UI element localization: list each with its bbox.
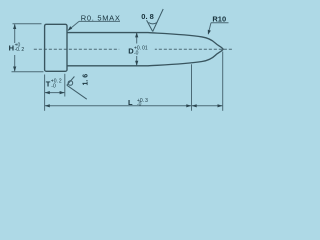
- svg-text:R0. 5MAX: R0. 5MAX: [81, 14, 121, 23]
- svg-text:-0: -0: [137, 102, 142, 108]
- leader R10: [211, 22, 229, 24]
- leader R0.5MAX: [79, 20, 120, 22]
- svg-text:R10: R10: [212, 15, 226, 24]
- tip chain arrow right: [218, 104, 223, 107]
- H dimension arrow up: [13, 24, 16, 29]
- centerline: [34, 48, 233, 50]
- L extension line at tip end: [222, 52, 224, 111]
- T extension line left: [44, 75, 46, 111]
- surface finish symbol 1.6 (rotated, on head right face): [67, 77, 87, 100]
- svg-text:0. 8: 0. 8: [141, 12, 154, 21]
- T arrow left: [45, 91, 50, 94]
- pin shank and tip outline: [67, 33, 223, 66]
- svg-text:H: H: [9, 43, 14, 52]
- D dimension line upper: [136, 33, 138, 44]
- surface finish symbol 0.8 (on shank top): [147, 9, 164, 32]
- svg-text:1. 6: 1. 6: [83, 74, 90, 86]
- svg-text:L: L: [128, 98, 133, 107]
- D dimension line lower: [136, 56, 138, 65]
- T dimension line: [45, 92, 65, 94]
- H dimension extension line bottom: [12, 71, 44, 73]
- svg-text:-0: -0: [51, 83, 56, 89]
- D label background mask: [119, 45, 155, 56]
- T extension line right (head right face extended): [64, 74, 66, 97]
- L dimension line: [45, 105, 223, 107]
- pin head: [45, 24, 67, 71]
- H dimension line: [14, 24, 16, 43]
- tip chain arrow left: [192, 104, 197, 107]
- H dimension arrow down: [13, 67, 16, 72]
- svg-text:-0. 2: -0. 2: [15, 47, 25, 53]
- svg-text:-0: -0: [134, 51, 139, 57]
- T arrow right: [60, 91, 65, 94]
- H dimension extension line top: [13, 23, 42, 25]
- D arrow up: [135, 32, 138, 37]
- D arrow down: [135, 61, 138, 66]
- L extension line at tip tangent: [191, 64, 193, 111]
- L arrow left: [45, 104, 50, 107]
- L arrow right at tangent line: [186, 104, 191, 107]
